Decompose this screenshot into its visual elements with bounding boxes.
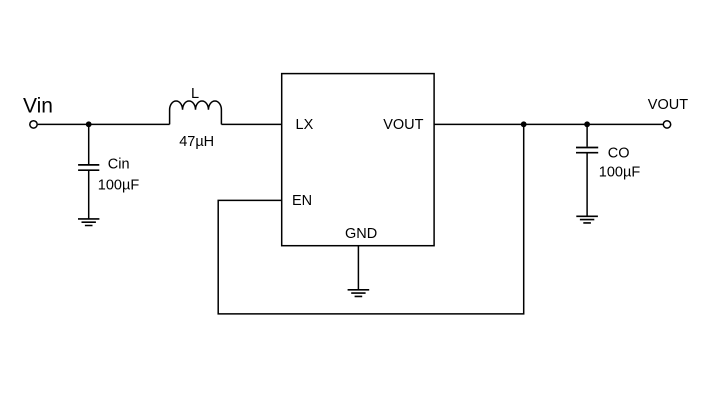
svg-text:VOUT: VOUT: [648, 97, 688, 113]
wire Cin bottom plate to ground: [88, 171, 90, 219]
svg-text:47µH: 47µH: [179, 134, 214, 150]
svg-text:EN: EN: [292, 193, 312, 209]
op-amp U1 IC block: [282, 74, 434, 246]
ground (Cin): [78, 219, 99, 226]
svg-text:GND: GND: [345, 226, 377, 242]
wire EN feedback loop (EN pin to node B): [218, 124, 524, 314]
svg-text:L: L: [191, 86, 199, 102]
wire GND pin to ground: [357, 246, 359, 290]
capacitor Cin wire from node A to top plate: [88, 124, 90, 164]
svg-text:VOUT: VOUT: [383, 117, 423, 133]
terminal Vin (open circle): [30, 121, 37, 128]
svg-text:100µF: 100µF: [599, 165, 641, 181]
ground (GND pin): [348, 290, 370, 297]
capacitor CO wire from node C to top plate: [586, 124, 588, 146]
inductor L (4 humps): [170, 101, 222, 124]
wire Vin terminal to inductor (through node A): [38, 123, 170, 125]
capacitor Cin plates: [78, 165, 99, 170]
terminal VOUT (open circle): [663, 121, 670, 128]
svg-text:CO: CO: [608, 146, 630, 162]
svg-text:Vin: Vin: [23, 95, 53, 118]
svg-text:100µF: 100µF: [98, 177, 140, 193]
svg-text:Cin: Cin: [108, 157, 130, 173]
wire inductor to LX pin: [221, 123, 281, 125]
wire VOUT pin to VOUT terminal: [434, 123, 663, 125]
svg-text:LX: LX: [296, 117, 314, 133]
node C junction dot (CO tap): [584, 121, 590, 127]
node B junction dot (feedback tap): [521, 121, 527, 127]
capacitor CO plates: [576, 148, 598, 153]
wire CO bottom plate to ground: [586, 154, 588, 217]
ground (CO): [576, 216, 598, 223]
node A junction dot (Vin/Cin): [86, 121, 92, 127]
